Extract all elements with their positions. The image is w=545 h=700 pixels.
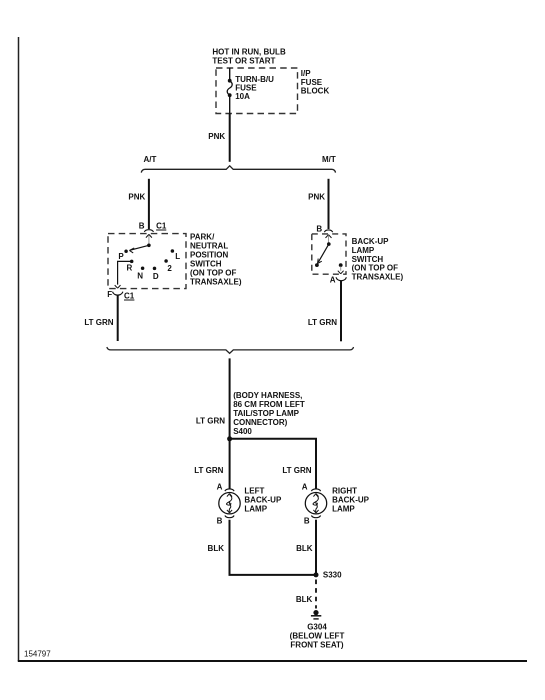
svg-text:TRANSAXLE): TRANSAXLE) — [190, 278, 242, 287]
svg-text:TRANSAXLE): TRANSAXLE) — [352, 273, 404, 282]
open switch arm — [318, 244, 329, 262]
svg-text:LT GRN: LT GRN — [84, 318, 113, 327]
svg-text:SWITCH: SWITCH — [190, 259, 222, 268]
right lamp connector B cup — [311, 516, 320, 518]
left lamp connector A arc — [225, 489, 234, 491]
I/P fuse block dashed box — [216, 68, 298, 114]
svg-text:LAMP: LAMP — [244, 504, 267, 513]
svg-text:BACK-UP: BACK-UP — [332, 495, 370, 504]
svg-text:BACK-UP: BACK-UP — [352, 237, 390, 246]
switch top contact dot — [327, 242, 331, 246]
svg-text:A/T: A/T — [144, 155, 157, 164]
ground G304 — [313, 610, 318, 615]
svg-text:LAMP: LAMP — [332, 504, 355, 513]
contact P — [124, 249, 128, 253]
svg-text:(ON TOP OF: (ON TOP OF — [190, 269, 236, 278]
wire M/T branch PNK — [328, 179, 330, 229]
svg-text:LT GRN: LT GRN — [196, 416, 225, 425]
svg-text:R: R — [127, 264, 133, 273]
svg-text:C1: C1 — [156, 222, 167, 231]
svg-text:P: P — [118, 252, 124, 261]
svg-text:LT GRN: LT GRN — [308, 318, 337, 327]
svg-text:N: N — [137, 272, 143, 281]
svg-text:(BELOW LEFT: (BELOW LEFT — [290, 632, 345, 641]
wire S400 to left lamp — [229, 439, 231, 489]
contact N — [141, 267, 145, 271]
right back-up lamp bulb — [305, 493, 326, 514]
splice S400 — [227, 436, 232, 441]
dashed wire S330 to ground BLK — [315, 580, 317, 609]
wire fuse to split, PNK — [229, 97, 231, 114]
page border bottom line — [18, 660, 527, 662]
svg-text:B: B — [316, 225, 322, 234]
svg-text:FUSE: FUSE — [301, 78, 323, 87]
svg-text:TAIL/STOP LAMP: TAIL/STOP LAMP — [233, 409, 299, 418]
svg-text:154797: 154797 — [24, 650, 51, 659]
wiper pivot dot — [147, 244, 151, 248]
splice S330 — [314, 572, 319, 577]
svg-text:SWITCH: SWITCH — [352, 255, 384, 264]
connector B C1 female arc (PNP switch) — [144, 230, 153, 232]
wire F down LT GRN — [117, 295, 119, 341]
wire left lamp B to S330 BLK — [230, 520, 315, 575]
svg-text:I/P: I/P — [301, 69, 311, 78]
svg-text:L: L — [175, 252, 180, 261]
svg-text:D: D — [153, 272, 159, 281]
connector A female cup — [336, 277, 346, 280]
connector B female arc (backup switch) — [324, 230, 332, 232]
svg-text:RIGHT: RIGHT — [332, 486, 357, 495]
svg-text:LEFT: LEFT — [244, 486, 264, 495]
wire merge to S400 LT GRN — [229, 358, 231, 437]
left back-up lamp bulb — [219, 493, 240, 514]
svg-text:BLK: BLK — [296, 595, 313, 604]
svg-text:POSITION: POSITION — [190, 250, 228, 259]
svg-text:G304: G304 — [307, 623, 327, 632]
svg-text:CONNECTOR): CONNECTOR) — [233, 418, 287, 427]
park/neutral position switch dashed box — [108, 234, 186, 289]
svg-text:B: B — [139, 222, 145, 231]
contact D — [153, 267, 157, 271]
svg-text:S330: S330 — [323, 571, 342, 580]
svg-text:TEST OR START: TEST OR START — [212, 57, 275, 66]
svg-text:NEUTRAL: NEUTRAL — [190, 242, 228, 251]
svg-text:(BODY HARNESS,: (BODY HARNESS, — [233, 391, 302, 400]
back-up lamp switch dashed box — [312, 234, 346, 274]
merge brace — [107, 347, 354, 353]
svg-text:F: F — [107, 290, 112, 299]
svg-text:10A: 10A — [235, 92, 250, 101]
svg-text:A: A — [302, 482, 308, 491]
svg-text:PNK: PNK — [308, 193, 325, 202]
svg-text:PARK/: PARK/ — [190, 233, 215, 242]
split brace A/T M/T — [141, 166, 335, 173]
svg-text:FRONT SEAT): FRONT SEAT) — [290, 641, 344, 650]
arrow down to A — [340, 267, 342, 271]
svg-text:B: B — [217, 517, 223, 526]
wire A down LT GRN right — [340, 280, 342, 341]
svg-text:C1: C1 — [124, 291, 135, 300]
svg-text:M/T: M/T — [322, 155, 336, 164]
wire into fuse — [229, 68, 231, 79]
male pin arrow up (B into switch) — [146, 234, 152, 237]
contact 2 — [164, 259, 168, 263]
svg-text:A: A — [217, 482, 223, 491]
svg-text:86 CM FROM LEFT: 86 CM FROM LEFT — [233, 400, 305, 409]
svg-text:BLK: BLK — [296, 544, 313, 553]
svg-text:HOT IN RUN, BULB: HOT IN RUN, BULB — [212, 48, 286, 57]
connector F C1 female cup — [113, 292, 123, 295]
svg-text:LT GRN: LT GRN — [282, 466, 311, 475]
male pin arrow up (B into backup switch) — [326, 235, 332, 238]
svg-text:BACK-UP: BACK-UP — [244, 495, 282, 504]
svg-text:PNK: PNK — [208, 132, 225, 141]
left lamp connector B cup — [225, 516, 234, 518]
svg-text:LAMP: LAMP — [352, 246, 375, 255]
contact L — [171, 249, 175, 253]
svg-text:B: B — [304, 517, 310, 526]
fuse TURN-B/U 10A — [228, 79, 232, 83]
wire right lamp B to S330 BLK — [315, 520, 317, 573]
wiper arm toward P with arrowhead — [130, 245, 149, 250]
svg-text:A: A — [330, 275, 336, 284]
svg-text:2: 2 — [167, 264, 172, 273]
wire S400 to right lamp — [230, 439, 316, 489]
svg-text:PNK: PNK — [128, 193, 145, 202]
svg-text:BLOCK: BLOCK — [301, 87, 330, 96]
page border left line — [18, 37, 20, 661]
wire A/T branch PNK — [148, 179, 150, 229]
svg-text:(ON TOP OF: (ON TOP OF — [352, 264, 398, 273]
contact R — [130, 260, 134, 264]
svg-text:S400: S400 — [233, 427, 252, 436]
right lamp connector A arc — [311, 489, 320, 491]
svg-text:LT GRN: LT GRN — [194, 466, 223, 475]
switch lower contact dot — [315, 263, 319, 267]
svg-text:BLK: BLK — [208, 544, 225, 553]
wire R to F output with arrow down — [118, 261, 132, 284]
output contact dot — [339, 263, 343, 267]
